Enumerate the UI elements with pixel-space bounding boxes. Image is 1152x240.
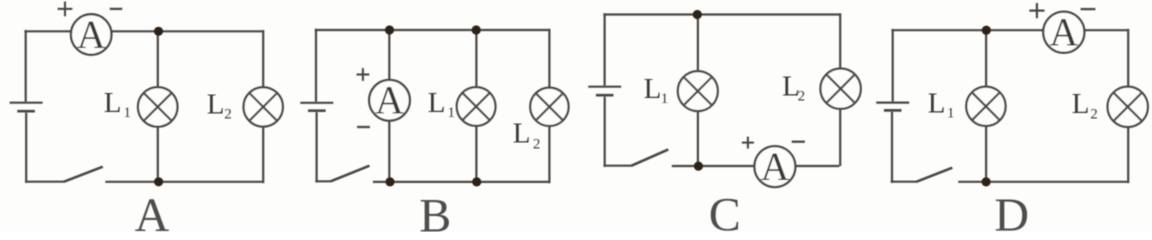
lamp L2-A (circle-cross) xyxy=(244,87,283,126)
circuit A top wire xyxy=(24,30,263,32)
polarity - of ammeter A xyxy=(110,8,122,10)
junction dot B bottom-1 xyxy=(385,177,394,186)
polarity - of ammeter B xyxy=(357,126,370,128)
label L1 of circuit B xyxy=(428,87,455,121)
svg-text:D: D xyxy=(994,189,1029,232)
circuit C top wire xyxy=(603,13,840,15)
junction dot D bottom xyxy=(982,177,991,186)
circuit B left wire (bottom segment) xyxy=(316,112,318,182)
ammeter U-C (circle A) xyxy=(754,144,795,189)
lamp L2-B (circle-cross) xyxy=(530,88,568,126)
switch S-D (open blade) xyxy=(917,168,953,182)
lamp branch L1-B wire xyxy=(475,30,477,182)
lamp L2-D (circle-cross) xyxy=(1108,87,1148,127)
circuit A left wire (bottom segment) xyxy=(25,113,27,183)
polarity - of ammeter D xyxy=(1081,8,1096,10)
circuit A bottom wire (battery to switch) xyxy=(25,181,65,183)
circuit B bottom wire (switch to right corner) xyxy=(373,181,550,183)
circuit C left wire (top segment) xyxy=(603,13,605,85)
label L2 of circuit C xyxy=(782,71,805,105)
svg-text:1: 1 xyxy=(448,105,456,121)
circuit B left wire (top segment) xyxy=(315,29,317,102)
svg-text:A: A xyxy=(760,144,789,189)
svg-text:L: L xyxy=(104,87,122,119)
svg-text:2: 2 xyxy=(533,137,541,153)
battery B-A (cell, + up) xyxy=(10,103,43,112)
svg-text:L: L xyxy=(207,89,225,121)
svg-text:L: L xyxy=(513,118,531,150)
circuit B top wire xyxy=(315,29,550,31)
junction dot A bottom xyxy=(154,177,163,186)
junction dot D top xyxy=(982,26,991,35)
svg-text:A: A xyxy=(1049,10,1078,55)
circuit C right wire xyxy=(839,13,841,166)
junction dot C top xyxy=(693,10,702,19)
circuit D bottom wire (switch to right corner) xyxy=(958,181,1128,183)
junction dot B bottom-2 xyxy=(472,177,481,186)
circuit C bottom wire (switch to right corner) xyxy=(672,165,840,167)
svg-text:C: C xyxy=(709,189,741,232)
svg-text:A: A xyxy=(375,78,404,123)
label L2 of circuit D xyxy=(1072,88,1098,123)
circuit D left wire (top segment) xyxy=(892,29,894,102)
answer label A xyxy=(135,189,170,240)
svg-text:A: A xyxy=(135,189,170,232)
ammeter U-A (circle A) xyxy=(71,12,112,57)
junction dot B top-1 xyxy=(385,25,394,34)
circuit C left wire (bottom segment) xyxy=(604,97,606,167)
svg-text:L: L xyxy=(644,73,662,105)
circuit D top wire xyxy=(891,29,1128,31)
svg-text:1: 1 xyxy=(124,105,132,121)
label L2 of circuit B xyxy=(513,118,541,153)
battery B-B (cell, + up) xyxy=(300,103,333,111)
switch S-A (open blade) xyxy=(64,167,103,182)
junction dot B top-2 xyxy=(472,25,481,34)
answer label D xyxy=(994,189,1029,240)
circuit D left wire (bottom segment) xyxy=(891,112,893,183)
switch S-B (open blade) xyxy=(331,166,370,182)
svg-text:1: 1 xyxy=(661,91,669,107)
polarity + of ammeter B xyxy=(357,68,370,81)
svg-text:1: 1 xyxy=(947,105,955,121)
lamp L1-C (circle-cross) xyxy=(678,71,718,111)
ammeter branch wire (circuit B) xyxy=(388,30,390,182)
lamp branch L1-D wire xyxy=(985,30,987,182)
label L1 of circuit D xyxy=(928,87,955,121)
circuit A left wire (top segment) xyxy=(25,30,27,102)
circuit B bottom wire (battery to switch) xyxy=(315,180,331,182)
lamp L1-B (circle-cross) xyxy=(457,87,496,126)
svg-text:A: A xyxy=(77,12,106,57)
label L2 of circuit A xyxy=(207,89,232,123)
circuit A right wire xyxy=(262,30,264,183)
circuit A bottom wire (switch to right corner) xyxy=(105,181,263,183)
answer label C xyxy=(709,189,741,240)
circuit B right wire xyxy=(548,29,550,184)
ammeter U-B (circle A) xyxy=(369,78,410,123)
circuit D right wire xyxy=(1127,29,1129,183)
battery B-C (cell, + up) xyxy=(588,87,621,96)
svg-text:L: L xyxy=(428,87,446,119)
svg-text:L: L xyxy=(928,87,946,119)
lamp L1-A (circle-cross) xyxy=(138,87,178,127)
switch S-C (open blade) xyxy=(632,149,669,165)
lamp branch L1-C wire xyxy=(697,15,699,167)
junction dot A top xyxy=(154,27,163,36)
ammeter U-D (circle A) xyxy=(1043,10,1084,55)
answer label B xyxy=(419,190,451,240)
polarity + of ammeter C xyxy=(742,137,754,149)
polarity + of ammeter A xyxy=(58,2,73,17)
junction dot C bottom xyxy=(694,162,703,171)
svg-text:2: 2 xyxy=(1090,107,1098,123)
lamp branch L1-A wire xyxy=(157,31,159,182)
lamp L1-D (circle-cross) xyxy=(966,87,1005,126)
polarity + of ammeter D xyxy=(1029,3,1044,18)
circuit C bottom wire (battery to switch) xyxy=(603,165,632,167)
label L1 of circuit C xyxy=(644,73,669,107)
svg-text:2: 2 xyxy=(224,107,232,123)
svg-text:B: B xyxy=(419,190,451,233)
svg-text:L: L xyxy=(1072,88,1090,120)
polarity - of ammeter C xyxy=(792,141,805,143)
lamp L2-C (circle-cross) xyxy=(820,69,860,109)
circuit D bottom wire (battery to switch) xyxy=(891,181,917,183)
svg-text:2: 2 xyxy=(798,89,806,105)
label L1 of circuit A xyxy=(104,87,131,121)
battery B-D (cell, + up) xyxy=(876,103,909,111)
